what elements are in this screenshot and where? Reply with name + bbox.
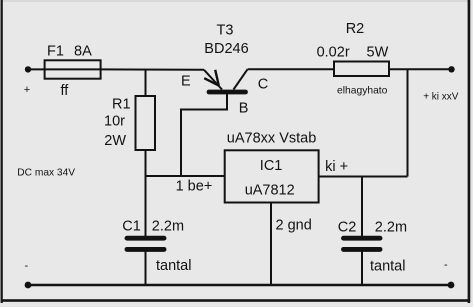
negative input terminal — [25, 282, 32, 289]
svg-text:R2: R2 — [346, 21, 365, 37]
node + input terminal — [25, 66, 31, 72]
resistor R1 — [136, 96, 156, 150]
svg-text:BD246: BD246 — [204, 41, 248, 57]
transistor T3 emitter arrow — [204, 70, 219, 86]
svg-text:8A: 8A — [74, 44, 92, 60]
fuse F1 — [45, 60, 101, 78]
capacitor C2 plates — [344, 236, 381, 241]
svg-text:C2: C2 — [338, 220, 357, 236]
negative output terminal — [448, 282, 455, 289]
wire bottom rail — [28, 284, 451, 286]
op-amp U IC1 box — [225, 150, 319, 202]
svg-text:R1: R1 — [112, 97, 131, 113]
svg-text:uA7812: uA7812 — [245, 183, 295, 199]
wire — [145, 150, 147, 176]
svg-text:5W: 5W — [367, 45, 389, 61]
capacitor C1 lead — [145, 251, 147, 285]
wire — [389, 68, 452, 70]
svg-text:IC1: IC1 — [260, 158, 283, 174]
svg-text:C: C — [258, 77, 268, 93]
svg-text:+: + — [24, 84, 30, 96]
svg-text:10r: 10r — [104, 114, 125, 130]
svg-text:E: E — [181, 74, 191, 90]
svg-text:tantal: tantal — [156, 258, 191, 274]
wire — [407, 69, 409, 176]
capacitor C2 lead — [361, 251, 363, 285]
svg-text:0.02r: 0.02r — [317, 45, 350, 61]
svg-text:1 be+: 1 be+ — [176, 178, 213, 194]
svg-text:-: - — [25, 260, 29, 272]
wire — [101, 68, 204, 70]
wire — [28, 68, 45, 70]
svg-text:F1: F1 — [47, 44, 64, 60]
resistor R2 — [334, 62, 389, 77]
svg-text:-: - — [444, 259, 448, 271]
wire IC output pin — [319, 176, 408, 178]
transistor Q T3 emitter — [204, 70, 222, 90]
wire — [145, 69, 147, 96]
svg-text:elhagyhato: elhagyhato — [337, 86, 388, 97]
wire — [248, 68, 335, 70]
svg-text:2.2m: 2.2m — [375, 220, 407, 236]
wire node line — [145, 175, 225, 177]
svg-text:C1: C1 — [122, 219, 141, 235]
capacitor C1 plates — [127, 236, 164, 241]
svg-text:uA78xx Vstab: uA78xx Vstab — [227, 131, 316, 147]
svg-text:B: B — [239, 101, 249, 117]
wire IC gnd pin — [270, 203, 272, 286]
wire base lead — [181, 94, 227, 176]
svg-text:DC max 34V: DC max 34V — [17, 168, 75, 179]
output terminal — [448, 66, 454, 72]
svg-text:ff: ff — [61, 83, 70, 99]
transistor T3 base bar — [209, 90, 246, 95]
svg-text:+ ki xxV: + ki xxV — [423, 92, 459, 103]
transistor T3 collector — [234, 69, 248, 89]
svg-text:2W: 2W — [104, 133, 126, 149]
capacitor C1 lead — [145, 176, 147, 237]
svg-text:ki +: ki + — [325, 159, 348, 175]
svg-text:T3: T3 — [217, 23, 234, 39]
svg-text:2.2m: 2.2m — [152, 219, 184, 235]
svg-text:tantal: tantal — [370, 259, 405, 275]
capacitor C2 lead — [361, 177, 363, 238]
svg-text:2 gnd: 2 gnd — [276, 218, 312, 234]
